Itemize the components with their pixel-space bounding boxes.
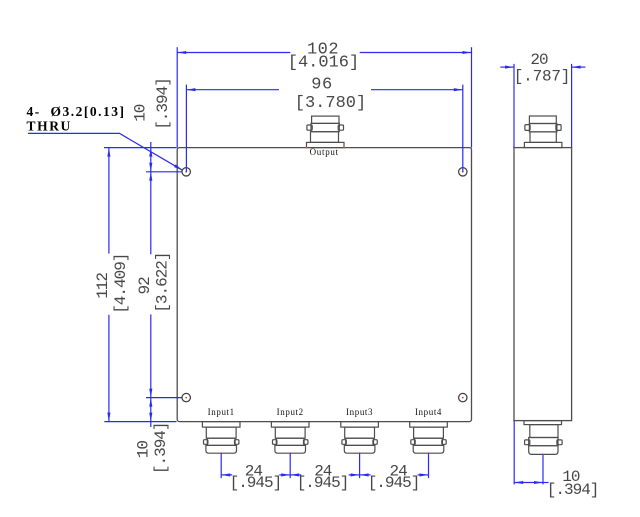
mounting hole bottom-left bbox=[182, 393, 190, 401]
mounting hole top-right bbox=[459, 168, 467, 176]
label Input2 bbox=[277, 407, 304, 417]
centre line of input 3 bbox=[359, 453, 361, 478]
label Input1 bbox=[208, 407, 235, 417]
dimension 24 [.945] spacing input3-input4 bbox=[360, 462, 429, 492]
hole note 4- &#8709;3.2[0.13] THRU with leader bbox=[27, 104, 183, 170]
svg-text:[3.780]: [3.780] bbox=[295, 94, 366, 113]
input connector J2 (front view, bottom) bbox=[271, 422, 309, 455]
side view enclosure box bbox=[514, 148, 572, 421]
input connector (side view, bottom) bbox=[513, 420, 562, 456]
svg-text:10: 10 bbox=[134, 441, 152, 459]
svg-text:Input1: Input1 bbox=[208, 407, 235, 417]
svg-text:[.394]: [.394] bbox=[154, 78, 172, 130]
dimension 10 [.394] side view edge to connector centre bbox=[514, 421, 598, 499]
svg-text:4- Ø3.2[0.13]: 4- Ø3.2[0.13] bbox=[27, 104, 126, 119]
output connector (side view, top) bbox=[513, 116, 572, 149]
label Input4 bbox=[415, 407, 442, 417]
svg-text:92: 92 bbox=[136, 277, 154, 295]
dimension 24 [.945] spacing input2-input3 bbox=[290, 462, 359, 492]
input connector J1 (front view, bottom) bbox=[202, 422, 240, 455]
svg-text:THRU: THRU bbox=[27, 118, 72, 133]
dimension 112 [4.409] overall height with extension lines bbox=[94, 148, 177, 422]
svg-text:10: 10 bbox=[131, 104, 149, 122]
dimension 24 [.945] spacing input1-input2 bbox=[221, 462, 290, 492]
svg-text:[4.409]: [4.409] bbox=[112, 254, 130, 314]
label Output bbox=[310, 147, 339, 157]
front view enclosure box bbox=[177, 148, 471, 422]
svg-text:[4.016]: [4.016] bbox=[288, 54, 359, 73]
svg-text:Input4: Input4 bbox=[415, 407, 442, 417]
svg-text:[.945]: [.945] bbox=[230, 474, 282, 492]
dimension 10 [.394] top edge to hole centre bbox=[131, 78, 172, 172]
svg-text:96: 96 bbox=[311, 76, 332, 95]
svg-text:[.945]: [.945] bbox=[368, 474, 420, 492]
dimension 102 [4.016] overall width with extension lines bbox=[177, 40, 471, 147]
dimension 92 [3.622] hole spacing with extension lines bbox=[136, 172, 182, 398]
svg-text:[.945]: [.945] bbox=[297, 474, 349, 492]
svg-text:Output: Output bbox=[310, 147, 339, 157]
centre line of input 4 bbox=[428, 453, 430, 478]
dimension 96 [3.780] hole spacing with extension lines bbox=[186, 76, 462, 172]
output connector J5 (front view, top) bbox=[306, 116, 345, 148]
input connector J4 (front view, bottom) bbox=[410, 422, 448, 455]
centre line of input 1 bbox=[220, 453, 222, 478]
dimension 10 [.394] hole centre to bottom edge bbox=[134, 398, 170, 475]
centre line of input 2 bbox=[289, 453, 291, 478]
svg-text:[.787]: [.787] bbox=[514, 68, 570, 86]
mounting hole top-left bbox=[182, 168, 190, 176]
input connector J3 (front view, bottom) bbox=[341, 422, 379, 455]
svg-text:[.394]: [.394] bbox=[547, 481, 599, 499]
dimension 20 [.787] side view width bbox=[500, 51, 585, 148]
svg-text:112: 112 bbox=[94, 273, 112, 299]
svg-text:Input2: Input2 bbox=[277, 407, 304, 417]
label Input3 bbox=[346, 407, 373, 417]
mounting hole bottom-right bbox=[459, 393, 467, 401]
svg-text:Input3: Input3 bbox=[346, 407, 373, 417]
svg-text:[3.622]: [3.622] bbox=[154, 252, 172, 312]
svg-text:[.394]: [.394] bbox=[152, 422, 170, 474]
svg-text:20: 20 bbox=[530, 51, 548, 69]
